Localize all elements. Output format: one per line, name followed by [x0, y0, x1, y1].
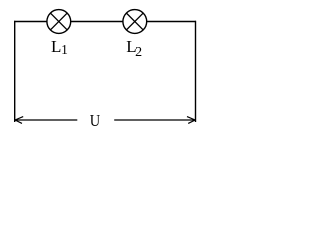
wire right vertical [195, 21, 197, 122]
svg-text:L: L [51, 37, 61, 56]
lamp L2 [123, 10, 147, 34]
lamp L1 [47, 10, 71, 34]
svg-text:1: 1 [61, 42, 68, 57]
wire between lamps [71, 21, 123, 23]
arrowhead left [15, 117, 23, 124]
wire left vertical [14, 21, 16, 122]
wire top-right segment [147, 21, 196, 23]
arrowhead right [187, 117, 195, 124]
voltage arrow U right segment [114, 119, 195, 121]
svg-text:U: U [90, 111, 100, 128]
wire top-left segment [14, 21, 47, 23]
voltage arrow U left segment [15, 119, 77, 121]
svg-text:2: 2 [135, 45, 142, 60]
